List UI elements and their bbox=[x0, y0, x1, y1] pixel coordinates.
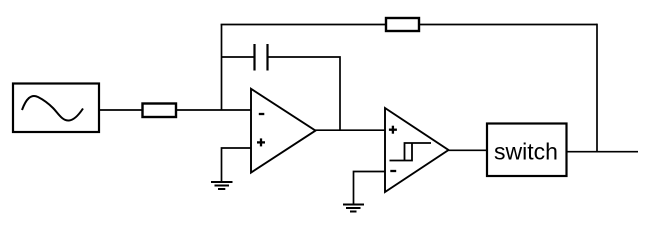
wire comparator inverting input to ground bbox=[354, 172, 386, 204]
resistor R2 (outer feedback) bbox=[386, 18, 419, 31]
wire op-amp non-inverting input to ground bbox=[222, 148, 252, 182]
comparator U2 plus label bbox=[389, 126, 397, 134]
switch SW1 bbox=[487, 124, 567, 177]
svg-text:switch: switch bbox=[494, 139, 558, 165]
op-amp U1 plus label bbox=[257, 138, 265, 146]
ground (op-amp + input) bbox=[211, 182, 233, 189]
wire R2 to right vertical bbox=[419, 24, 597, 26]
comparator U2 (Schmitt trigger) bbox=[385, 108, 449, 192]
capacitor C1 bbox=[255, 44, 268, 71]
wire top feedback to R2 bbox=[221, 24, 386, 26]
wire right vertical down to output net bbox=[596, 24, 598, 152]
wire op-amp output to comparator + input bbox=[315, 129, 386, 131]
resistor R1 bbox=[143, 104, 177, 118]
wire node A to capacitor C1 bbox=[222, 56, 255, 58]
comparator U2 minus label bbox=[390, 170, 396, 172]
wire R1 to op-amp inverting input (node A) bbox=[176, 109, 251, 111]
wire node A up to feedback branch bbox=[221, 25, 223, 111]
wire comparator output to switch bbox=[449, 149, 488, 151]
op-amp U1 bbox=[251, 89, 316, 173]
wire source to R1 bbox=[99, 109, 143, 111]
ground (comparator - input) bbox=[343, 205, 364, 212]
comparator U2 hysteresis symbol bbox=[390, 143, 432, 161]
op-amp U1 minus label bbox=[259, 113, 265, 115]
source V1 (sine-wave generator) bbox=[13, 84, 99, 133]
wire switch output (net OUT) bbox=[567, 151, 639, 153]
wire C1 to op-amp output bbox=[268, 57, 341, 130]
